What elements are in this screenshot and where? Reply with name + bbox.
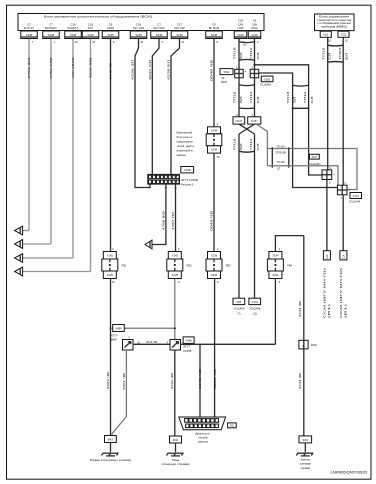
svg-text:2214 ЧВ: 2214 ЧВ	[146, 340, 157, 344]
svg-text:ТП18: ТП18	[233, 138, 237, 151]
svg-text:2223 ЧВ: 2223 ЧВ	[106, 372, 110, 389]
twist arc 5	[239, 150, 255, 153]
svg-text:РВ4: РВ4	[287, 264, 292, 268]
svg-text:Рама (спереди слева): Рама (спереди слева)	[90, 458, 131, 462]
ground Ф43	[170, 436, 182, 443]
svg-text:0752 СЛВ: 0752 СЛВ	[49, 58, 53, 79]
svg-text:X149: X149	[211, 128, 218, 132]
connector X248 at pin C18	[130, 31, 147, 39]
svg-text:ЗЛ: ЗЛ	[293, 96, 297, 103]
svg-text:(В1): (В1)	[344, 304, 347, 318]
svg-text:X344: X344	[272, 273, 279, 277]
svg-text:разъем: разъем	[198, 440, 208, 444]
connector label X51	[228, 423, 237, 428]
svg-text:BATTERY: BATTERY	[45, 26, 57, 30]
svg-text:CAN: CAN	[252, 22, 258, 26]
connector 21A left	[323, 251, 330, 260]
svg-text:ССМ (МГУ МН-П2): ССМ (МГУ МН-П2)	[340, 268, 343, 318]
svg-text:C18: C18	[238, 19, 244, 23]
wire from X344 down to horizontal bus	[274, 279, 276, 345]
connector label X393	[261, 76, 273, 82]
svg-text:Ф30: Ф30	[303, 438, 309, 442]
connector label X127	[310, 154, 320, 159]
wire net 2223 ЧВ from pin C8	[110, 39, 112, 252]
connector X248 at pin C17	[171, 31, 188, 39]
wire net 0752 СЛВ	[50, 39, 52, 244]
svg-text:ЗЛ: ЗЛ	[239, 96, 243, 103]
ground Ф42	[105, 436, 117, 443]
svg-text:Монтажный: Монтажный	[177, 131, 193, 135]
svg-text:УСзСАН5: УСзСАН5	[233, 307, 245, 310]
svg-text:15: 15	[92, 40, 95, 44]
diagnostic connector DLC X51	[179, 417, 226, 430]
twist arc branch	[293, 84, 309, 87]
DLC left wire	[199, 344, 201, 417]
svg-text:X393: X393	[264, 77, 271, 81]
svg-text:C18: C18	[88, 22, 94, 26]
twist arc 3	[239, 84, 255, 87]
wire net 4787 ЛУ into inline connector	[175, 184, 177, 251]
twist arc 1	[239, 41, 255, 44]
svg-text:4237 СЛ: 4237 СЛ	[148, 60, 152, 80]
CAN wires lower labels	[238, 134, 240, 298]
svg-text:LOW: LOW	[238, 26, 244, 30]
svg-text:4786 ЖВ: 4786 ЖВ	[161, 211, 165, 230]
svg-text:ТП18: ТП18	[233, 47, 237, 60]
svg-text:телей, распо-: телей, распо-	[177, 144, 195, 148]
svg-text:X228: X228	[172, 273, 179, 277]
connector X112 of U2 pin 10	[338, 31, 349, 37]
branch wire A from CAN HIGH to splice SP1	[255, 65, 323, 175]
wire from corner to inline connector X144	[275, 236, 303, 252]
connector label X98 end of CAN LOW	[233, 298, 245, 304]
svg-text:ЖГУТ-: ЖГУТ-	[111, 334, 119, 337]
svg-text:2221 ЧВ: 2221 ЧВ	[170, 373, 174, 389]
svg-text:ACC: ACC	[88, 26, 94, 30]
off-page arrow 2	[15, 240, 23, 249]
svg-text:0751 ЖЛ: 0751 ЖЛ	[27, 57, 31, 78]
window splice SP2	[337, 185, 347, 195]
svg-text:справа): справа)	[301, 466, 311, 470]
splice S1 on CAN LOW	[235, 69, 244, 78]
svg-text:ЖГУТ-: ЖГУТ-	[183, 346, 191, 349]
connector X248 at pin C7	[151, 31, 168, 39]
svg-text:СЛ: СЛ	[256, 143, 260, 150]
svg-text:4787 ЛУ: 4787 ЛУ	[171, 212, 175, 230]
svg-text:0049 ЧВ: 0049 ЧВ	[209, 211, 213, 231]
wire net 4235 ЖВ	[90, 39, 92, 272]
svg-text:ТП11: ТП11	[249, 91, 253, 104]
svg-text:предохрани-: предохрани-	[177, 140, 194, 144]
wire C from X1167 right via ТП-115	[256, 124, 357, 189]
svg-text:(11): (11)	[253, 312, 257, 315]
wire net 4234 СЛ/БЛ	[72, 39, 74, 258]
connector X1167 left	[233, 117, 245, 124]
svg-text:УАМТ: УАМТ	[221, 81, 228, 84]
svg-text:БЛ: БЛ	[345, 52, 349, 59]
svg-text:КАНАЛ А: КАНАЛ А	[67, 26, 78, 30]
wire from X228 down to splice X498 and ground G2	[174, 279, 176, 341]
horizontal bus wire to DLC	[181, 343, 276, 345]
wire 2214 ЧВ between splices	[133, 343, 170, 345]
svg-text:KEY SW: KEY SW	[174, 26, 185, 30]
svg-text:X111: X111	[323, 33, 329, 36]
svg-text:4238 БЛ: 4238 БЛ	[167, 60, 171, 80]
svg-text:X249: X249	[211, 148, 218, 152]
svg-text:ЖГУТ-КУЗОВ: ЖГУТ-КУЗОВ	[181, 178, 198, 182]
harness splice W99	[299, 340, 308, 349]
svg-text:блок реле и: блок реле и	[177, 135, 193, 139]
svg-text:РВ3: РВ3	[226, 264, 231, 268]
svg-text:0049 ЧВ: 0049 ЧВ	[213, 369, 217, 389]
wire C9 continues to X139	[213, 153, 215, 251]
window splice SP1	[322, 170, 332, 180]
svg-text:ТП-116: ТП-116	[277, 161, 286, 164]
svg-text:УСзСАН4: УСзСАН4	[349, 201, 361, 204]
svg-text:C18: C18	[136, 22, 142, 26]
ECU box U1 BCM (Блок управления дополнительным оборудованием)	[18, 14, 264, 31]
svg-text:2221 ЧВ: 2221 ЧВ	[122, 373, 126, 390]
svg-text:УСзСАН6: УСзСАН6	[249, 307, 261, 310]
svg-text:4235 ЖВ: 4235 ЖВ	[89, 58, 93, 79]
svg-text:X145: X145	[107, 253, 114, 257]
wire net 0751 ЖЛ	[28, 39, 30, 231]
svg-text:КУЗОВ: КУЗОВ	[183, 350, 191, 353]
svg-text:(спереди справа): (спереди справа)	[162, 462, 190, 466]
svg-text:CAN: CAN	[238, 22, 244, 26]
svg-text:ТП19: ТП19	[321, 47, 325, 60]
connector X248 at pin C8	[102, 31, 119, 39]
svg-text:Ф42: Ф42	[108, 438, 114, 442]
wire SP1 to connector 21A left	[326, 180, 328, 251]
svg-text:РВ1: РВ1	[122, 264, 127, 268]
connector X248 at pin C18	[82, 31, 99, 39]
svg-text:1049 ЧВ: 1049 ЧВ	[198, 369, 202, 389]
svg-text:X112: X112	[341, 33, 347, 36]
wire net 0049 ЧВ from pin C9	[213, 39, 215, 127]
connector X248 at pin C7	[43, 31, 60, 39]
svg-text:C17: C17	[177, 22, 183, 26]
svg-text:(спереди: (спереди	[300, 462, 312, 466]
svg-text:ID-8 LFY: ID-8 LFY	[24, 26, 35, 30]
svg-text:C14: C14	[70, 22, 76, 26]
svg-text:УСзСАН1: УСзСАН1	[260, 84, 272, 87]
svg-text:Рисунок 2: Рисунок 2	[181, 183, 194, 187]
harness splice X498	[170, 340, 181, 351]
splice S2 on CAN HIGH	[250, 69, 259, 78]
ground Ф30	[299, 436, 312, 443]
off-page arrow 4	[15, 267, 23, 276]
svg-text:X143: X143	[172, 253, 179, 257]
svg-text:KEY HS2: KEY HS2	[154, 26, 165, 30]
svg-text:0440 ЧВ: 0440 ЧВ	[109, 63, 113, 79]
connector X1167 right	[248, 117, 261, 124]
off-page arrow 1	[15, 226, 23, 235]
svg-text:СЛ: СЛ	[256, 52, 260, 59]
connector X248 at pin C9	[206, 31, 223, 39]
twist arc cluster top	[328, 44, 344, 47]
svg-text:ТП18: ТП18	[286, 91, 290, 104]
svg-text:2234 ЗВ: 2234 ЗВ	[298, 373, 302, 389]
wire from X225 to ground G1	[110, 279, 112, 436]
svg-text:C7: C7	[157, 22, 161, 26]
branch wire B from splice S2 to splice SP2	[259, 73, 338, 188]
connector X248 at pin C18	[234, 31, 247, 39]
junction node on wire 5	[109, 327, 111, 329]
svg-text:C7: C7	[49, 22, 53, 26]
off-page arrow 5	[145, 240, 152, 249]
svg-text:X498: X498	[185, 339, 192, 343]
connector label X102 end of CAN HIGH	[249, 298, 261, 304]
svg-text:HIGH: HIGH	[251, 26, 258, 30]
svg-text:СЛ: СЛ	[277, 169, 281, 171]
svg-text:ТП20: ТП20	[338, 47, 342, 60]
connector X248 at pin C2	[21, 31, 38, 39]
CAN HIGH wire	[254, 39, 256, 70]
svg-text:СЛ: СЛ	[328, 53, 332, 60]
svg-text:ложенный в: ложенный в	[177, 149, 194, 153]
svg-text:X144: X144	[272, 253, 279, 257]
svg-text:21А: 21А	[343, 254, 346, 259]
twist arc cluster bottom	[328, 61, 344, 64]
CAN LOW wire	[238, 39, 240, 70]
svg-text:C8: C8	[109, 22, 113, 26]
wire from pin C18 KEY HS3	[135, 39, 150, 188]
svg-text:X1167: X1167	[235, 120, 242, 123]
svg-text:ТП18: ТП18	[233, 91, 237, 104]
wire SP2 to connector 21A right	[342, 195, 344, 251]
twist arc 2	[239, 59, 255, 62]
svg-text:4234 СЛ/БЛ: 4234 СЛ/БЛ	[71, 57, 75, 78]
fuse strip connector pins row	[149, 175, 152, 179]
svg-text:приборов (MBEC): приборов (MBEC)	[321, 26, 347, 29]
twist end tie	[293, 107, 309, 109]
svg-text:(В1): (В1)	[328, 304, 331, 318]
wire from splice X459 to ground G1	[112, 350, 126, 436]
branch wire to wire5 junction	[111, 327, 175, 329]
svg-text:СЛ: СЛ	[256, 96, 260, 103]
svg-text:кабине: кабине	[177, 153, 187, 157]
svg-text:16: 16	[75, 40, 78, 44]
svg-text:ТП-115: ТП-115	[277, 146, 286, 149]
svg-text:21А: 21А	[326, 254, 329, 259]
svg-text:KEY HS3: KEY HS3	[133, 26, 144, 30]
svg-text:GND2: GND2	[107, 26, 115, 30]
connector label X198	[181, 167, 194, 173]
crossover wires below X1167	[239, 124, 255, 134]
svg-text:Блок управления дополнительным: Блок управления дополнительным оборудова…	[44, 14, 152, 18]
svg-text:ВС В(20): ВС В(20)	[209, 26, 220, 30]
inline connector bars ТП-115/ТП-116	[271, 147, 273, 167]
connector label X433	[350, 193, 362, 199]
cluster wire 2 (X112) down to splice SP2	[342, 37, 344, 185]
svg-text:W99: W99	[311, 343, 317, 347]
wire from pin C7 KEY HS2	[152, 39, 159, 175]
svg-text:X102: X102	[252, 300, 259, 304]
svg-text:LNR96DQNT03920: LNR96DQNT03920	[331, 471, 368, 475]
svg-text:4236 ЗЛ: 4236 ЗЛ	[131, 60, 135, 80]
svg-text:Кабина: Кабина	[301, 457, 311, 461]
svg-text:C6: C6	[253, 19, 257, 23]
svg-text:C2: C2	[27, 22, 31, 26]
svg-text:X51: X51	[230, 425, 235, 428]
svg-text:X392: X392	[223, 70, 230, 74]
svg-text:2234 ЗВ: 2234 ЗВ	[298, 301, 302, 317]
harness splice X459	[123, 340, 134, 351]
svg-text:X127: X127	[311, 156, 317, 159]
svg-text:ТП11: ТП11	[249, 138, 253, 151]
svg-text:ЗЛ: ЗЛ	[239, 52, 243, 59]
wire net 4786 ЖВ to off-page arrow	[152, 184, 166, 244]
twist arc 4	[239, 107, 255, 110]
ECU box U2 instrument cluster (Блок управления комбинации приборов)	[315, 14, 355, 31]
wire from X239 to DLC	[214, 279, 216, 418]
svg-text:ЗЛ: ЗЛ	[239, 143, 243, 150]
connector X248 at pin C14	[65, 31, 82, 39]
connector X248 at pin C6	[248, 31, 261, 39]
svg-text:C9: C9	[212, 22, 216, 26]
svg-text:X459: X459	[115, 327, 122, 331]
svg-text:РВ2: РВ2	[187, 264, 192, 268]
CAN wires continue	[238, 78, 240, 117]
svg-text:X433: X433	[353, 194, 360, 198]
svg-text:X239: X239	[211, 273, 218, 277]
svg-text:0049 ЧВ: 0049 ЧВ	[209, 60, 213, 81]
svg-text:ДВИГ.: ДВИГ.	[111, 339, 118, 342]
svg-text:ССМ (МГУ МН-П1): ССМ (МГУ МН-П1)	[323, 268, 326, 318]
strip frame	[148, 174, 180, 184]
svg-text:X225: X225	[107, 273, 114, 277]
svg-text:ТП11: ТП11	[249, 47, 253, 60]
svg-text:11: 11	[181, 40, 184, 44]
svg-text:СЛ/ЛУ-ЛМ: СЛ/ЛУ-ЛМ	[275, 152, 286, 154]
off-page arrow 3	[15, 254, 23, 263]
connector X111 of U2 pin 15	[320, 31, 331, 37]
wire from pin C17 KEY SW	[171, 39, 180, 175]
wire D ТП-116 to splice SP2	[267, 166, 338, 185]
cluster wire 1 (X111) down to splice SP1	[327, 37, 329, 170]
svg-text:(7): (7)	[237, 312, 240, 315]
svg-text:10: 10	[140, 40, 143, 44]
connector label X498	[183, 337, 194, 344]
svg-text:*2: *2	[243, 43, 246, 47]
svg-text:X1167: X1167	[251, 120, 258, 123]
svg-text:ТП11: ТП11	[303, 91, 307, 104]
svg-text:X139: X139	[211, 253, 218, 257]
connector label X459	[113, 325, 125, 332]
svg-text:X98: X98	[236, 300, 241, 304]
connector label X392	[220, 69, 233, 75]
svg-text:Ф43: Ф43	[173, 438, 179, 442]
wire from corner down to ground G3	[303, 236, 305, 436]
connector 21A right	[340, 251, 347, 260]
svg-text:СЛ: СЛ	[310, 96, 314, 103]
svg-text:X198: X198	[184, 168, 191, 172]
